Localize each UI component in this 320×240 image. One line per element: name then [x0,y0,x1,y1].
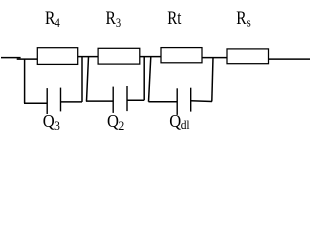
wire Qdl left lead [149,101,178,103]
svg-text:Rt: Rt [167,8,181,29]
wire Q2 right riser [143,57,145,101]
label Qdl [169,111,190,132]
wire between R4 and R3 [78,56,98,58]
wire left stub upper [1,57,21,59]
wire Q2 left riser [87,57,89,102]
wire Q3 right lead [61,101,83,103]
label R3 [106,8,122,30]
svg-text:R: R [106,8,117,29]
resistor Rs [227,49,269,64]
svg-text:4: 4 [54,17,59,30]
label R4 [45,8,60,30]
svg-text:3: 3 [116,17,121,30]
wire Qdl right riser [212,58,213,102]
resistor Rt [161,48,202,63]
label Q3 [43,111,60,133]
svg-text:Q: Q [169,111,181,131]
wire Q3 left riser [24,59,26,103]
capacitor Q2 [113,86,127,113]
capacitor Qdl [177,88,191,115]
svg-text:3: 3 [54,119,60,134]
wire Qdl right lead [191,100,212,103]
resistor R3 [98,48,140,64]
wire Q2 left lead [86,100,113,102]
label Q2 [107,111,124,133]
wire between Rt and Rs [202,57,227,59]
svg-text:Q: Q [107,111,119,131]
wire Qdl left riser [149,57,151,102]
label Rt [167,8,181,29]
svg-text:R: R [236,8,247,29]
label Rs [236,8,251,30]
resistor R4 [37,48,77,65]
wire Q2 right lead [127,99,144,101]
wire Q3 left lead [24,102,47,104]
svg-text:s: s [247,17,252,30]
wire right stub [269,58,311,60]
wire between R3 and Rt [140,56,161,58]
capacitor Q3 [47,88,60,114]
svg-text:2: 2 [119,119,125,134]
wire Q3 right riser [81,57,83,102]
svg-text:dl: dl [181,117,191,132]
wire left stub lower [17,58,38,60]
